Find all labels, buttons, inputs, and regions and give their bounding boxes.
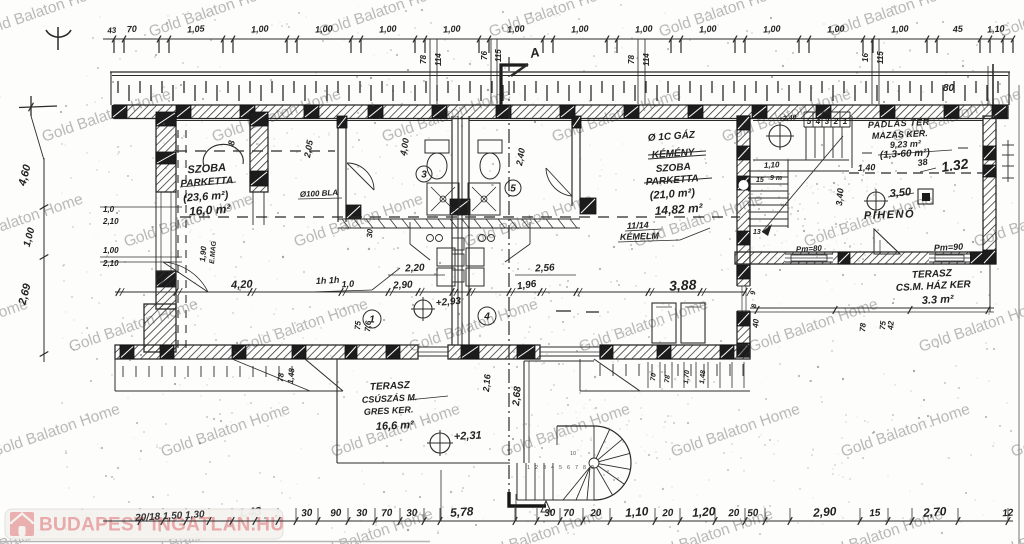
svg-text:1,48: 1,48 <box>286 367 296 384</box>
svg-text:9: 9 <box>750 291 757 296</box>
svg-text:13: 13 <box>753 229 761 236</box>
svg-text:80: 80 <box>943 83 955 94</box>
svg-text:2: 2 <box>535 465 538 471</box>
svg-text:5,78: 5,78 <box>450 504 475 520</box>
svg-text:2,10: 2,10 <box>102 217 119 226</box>
svg-text:1: 1 <box>527 465 530 471</box>
svg-text:1,00: 1,00 <box>827 23 845 34</box>
svg-text:43: 43 <box>106 26 117 36</box>
svg-text:1,20: 1,20 <box>692 504 717 520</box>
svg-text:30: 30 <box>406 508 418 520</box>
svg-text:3.3 m²: 3.3 m² <box>922 293 955 307</box>
svg-text:16: 16 <box>861 53 870 62</box>
svg-text:1,10: 1,10 <box>987 23 1005 34</box>
svg-text:3: 3 <box>543 465 546 471</box>
svg-text:10: 10 <box>570 451 576 457</box>
svg-text:1,10: 1,10 <box>625 504 650 520</box>
svg-text:1,00: 1,00 <box>315 23 333 34</box>
svg-text:2,20: 2,20 <box>404 262 425 274</box>
svg-text:1,0: 1,0 <box>103 205 115 214</box>
svg-text:1,70: 1,70 <box>683 370 691 384</box>
svg-text:1,00: 1,00 <box>699 23 717 34</box>
svg-text:30: 30 <box>356 508 368 520</box>
svg-text:7: 7 <box>575 465 578 471</box>
svg-text:1,00: 1,00 <box>443 23 461 34</box>
svg-text:3: 3 <box>825 117 830 126</box>
svg-text:38: 38 <box>917 157 928 168</box>
svg-text:5: 5 <box>559 465 562 471</box>
svg-text:1,48: 1,48 <box>699 370 707 384</box>
svg-text:30: 30 <box>365 228 375 238</box>
svg-text:75: 75 <box>353 320 363 330</box>
svg-text:76: 76 <box>480 51 489 60</box>
svg-text:20: 20 <box>589 508 602 520</box>
svg-text:50: 50 <box>747 508 759 520</box>
svg-text:16,0 m²: 16,0 m² <box>189 202 232 219</box>
svg-text:2,16: 2,16 <box>481 373 493 393</box>
svg-text:1,10: 1,10 <box>764 160 781 170</box>
svg-text:1,00: 1,00 <box>763 23 781 34</box>
svg-text:12: 12 <box>1002 508 1014 520</box>
svg-text:2,10: 2,10 <box>102 259 119 268</box>
svg-text:45: 45 <box>951 24 964 35</box>
svg-text:6: 6 <box>567 465 570 471</box>
svg-text:4: 4 <box>815 117 821 126</box>
svg-text:TERASZ: TERASZ <box>912 268 953 281</box>
svg-text:70: 70 <box>650 373 658 381</box>
svg-text:3,88: 3,88 <box>669 276 697 293</box>
svg-text:3,40: 3,40 <box>834 188 845 206</box>
svg-text:4: 4 <box>483 312 490 323</box>
svg-text:1,40: 1,40 <box>858 162 876 173</box>
svg-text:2,70: 2,70 <box>922 504 948 520</box>
svg-text:70: 70 <box>563 508 575 520</box>
svg-text:2: 2 <box>833 117 839 126</box>
svg-text:1,00: 1,00 <box>103 246 119 255</box>
svg-text:1,00: 1,00 <box>379 23 397 34</box>
svg-text:78: 78 <box>627 55 636 64</box>
svg-text:1,00: 1,00 <box>507 23 525 34</box>
svg-text:114: 114 <box>434 53 443 66</box>
svg-text:30: 30 <box>544 508 556 520</box>
svg-text:16,6 m²: 16,6 m² <box>376 419 415 433</box>
svg-text:1,00: 1,00 <box>891 23 909 34</box>
svg-text:90: 90 <box>330 508 342 520</box>
svg-text:TERASZ: TERASZ <box>370 380 411 393</box>
svg-text:42: 42 <box>886 320 896 331</box>
svg-text:115: 115 <box>494 49 503 62</box>
svg-text:15: 15 <box>869 508 881 520</box>
svg-text:+2,93: +2,93 <box>435 296 462 309</box>
svg-text:4,20: 4,20 <box>230 278 254 291</box>
svg-text:5: 5 <box>510 184 516 195</box>
svg-text:2,90: 2,90 <box>812 504 838 520</box>
svg-text:2,90: 2,90 <box>392 279 413 291</box>
svg-text:4: 4 <box>551 465 554 471</box>
svg-text:78: 78 <box>858 322 868 332</box>
svg-text:70: 70 <box>381 508 393 520</box>
svg-text:20: 20 <box>661 508 674 520</box>
svg-text:20: 20 <box>727 508 740 520</box>
svg-text:Pm=90: Pm=90 <box>934 241 964 253</box>
svg-text:1,90: 1,90 <box>198 245 208 262</box>
svg-text:+2,31: +2,31 <box>454 430 482 443</box>
svg-text:7,6: 7,6 <box>363 320 373 332</box>
svg-text:Pm=80: Pm=80 <box>796 244 823 254</box>
svg-text:1: 1 <box>843 117 848 126</box>
svg-text:1,0: 1,0 <box>341 279 354 290</box>
svg-text:1,00: 1,00 <box>635 23 653 34</box>
svg-text:40: 40 <box>751 318 761 329</box>
svg-text:78: 78 <box>419 55 428 64</box>
svg-text:KÉMELM: KÉMELM <box>620 231 660 242</box>
svg-text:70: 70 <box>126 24 137 35</box>
svg-text:30: 30 <box>301 508 313 520</box>
svg-text:1,05: 1,05 <box>187 23 206 34</box>
svg-text:3,50: 3,50 <box>889 186 912 200</box>
svg-text:1,00: 1,00 <box>571 23 589 34</box>
svg-text:78: 78 <box>276 372 286 382</box>
svg-text:8: 8 <box>751 304 758 309</box>
svg-text:78: 78 <box>664 375 672 383</box>
svg-text:PIHENŐ: PIHENŐ <box>864 207 916 222</box>
svg-text:8: 8 <box>583 465 586 471</box>
svg-text:11/14: 11/14 <box>627 220 649 231</box>
svg-text:5: 5 <box>807 117 812 126</box>
svg-text:114: 114 <box>642 53 651 66</box>
svg-text:2,56: 2,56 <box>534 262 555 274</box>
svg-text:2,68: 2,68 <box>511 385 524 407</box>
svg-text:1h 1h: 1h 1h <box>316 275 340 286</box>
